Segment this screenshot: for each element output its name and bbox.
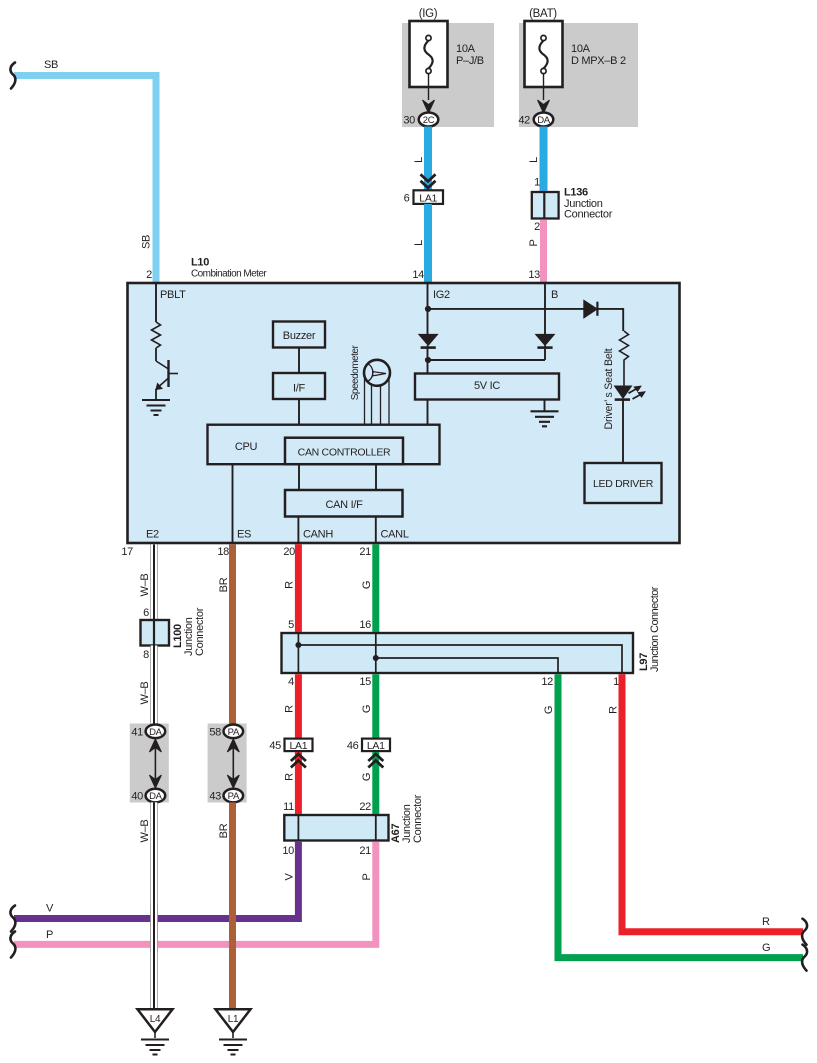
label BR xyxy=(218,823,230,838)
CAN CONTROLLER box xyxy=(285,438,403,465)
label G xyxy=(543,706,555,714)
svg-text:42: 42 xyxy=(518,115,530,127)
pin 2 xyxy=(146,269,152,281)
pin 16 xyxy=(359,619,371,631)
svg-text:R: R xyxy=(608,706,620,714)
arrow into 2C xyxy=(423,100,435,113)
svg-text:DA: DA xyxy=(149,727,163,738)
wire G CANL seg3 xyxy=(372,752,379,814)
wire G CANL seg2 xyxy=(372,674,379,738)
svg-text:P: P xyxy=(528,239,540,246)
svg-text:Connector: Connector xyxy=(564,209,613,221)
svg-text:LA1: LA1 xyxy=(290,740,308,752)
svg-text:17: 17 xyxy=(121,546,133,558)
arrow into DA xyxy=(538,100,550,113)
svg-text:46: 46 xyxy=(347,740,359,752)
label V xyxy=(284,873,296,881)
shield chevrons into LA1 xyxy=(421,174,436,188)
junction connector L136 xyxy=(532,187,613,221)
svg-text:2: 2 xyxy=(534,221,540,233)
wire R CANH seg3 xyxy=(295,752,302,814)
pin 15 xyxy=(359,676,371,688)
label P xyxy=(528,239,540,246)
label L xyxy=(413,240,425,246)
wire LED to LED DRIVER xyxy=(622,400,624,463)
label L xyxy=(528,157,540,163)
svg-text:10A: 10A xyxy=(456,43,476,55)
svg-text:Combination Meter: Combination Meter xyxy=(191,269,267,280)
label R xyxy=(284,773,296,781)
svg-text:LA1: LA1 xyxy=(367,740,385,752)
label V left xyxy=(46,903,54,915)
wire B internal xyxy=(545,283,558,334)
label R xyxy=(608,706,620,714)
label P left xyxy=(46,929,53,941)
svg-text:SB: SB xyxy=(44,59,58,71)
transistor Q1 xyxy=(156,348,178,399)
fuse F1 IG 10A xyxy=(410,21,484,87)
svg-text:16: 16 xyxy=(359,619,371,631)
pin 4 xyxy=(288,676,294,688)
diode D2 down xyxy=(536,334,555,360)
wire G CANL seg1 xyxy=(372,544,379,632)
pin 21 xyxy=(359,845,371,857)
svg-text:V: V xyxy=(46,903,54,915)
label G right xyxy=(762,942,770,954)
svg-text:D MPX–B 2: D MPX–B 2 xyxy=(571,55,626,67)
svg-text:13: 13 xyxy=(528,269,540,281)
svg-text:R: R xyxy=(762,916,770,928)
I/F box xyxy=(273,373,325,399)
svg-text:R: R xyxy=(284,705,296,713)
fuse block BAT background xyxy=(519,23,638,127)
svg-text:R: R xyxy=(284,773,296,781)
pin 1 xyxy=(534,177,540,189)
pin 18 xyxy=(217,546,229,558)
connector pin 40 DA xyxy=(131,789,165,803)
svg-text:BR: BR xyxy=(218,823,230,838)
pin 17 xyxy=(121,546,133,558)
svg-text:PA: PA xyxy=(228,727,240,738)
svg-text:LA1: LA1 xyxy=(419,193,437,205)
svg-text:(IG): (IG) xyxy=(419,8,438,20)
connector 45 LA1 xyxy=(269,739,312,752)
pin 13 xyxy=(528,269,540,281)
label G xyxy=(361,705,373,713)
svg-text:2C: 2C xyxy=(423,115,435,126)
wire W-B seg2 xyxy=(150,646,158,726)
svg-text:Speedometer: Speedometer xyxy=(350,345,361,401)
label W-B xyxy=(139,682,151,705)
5V IC box xyxy=(415,374,559,400)
label W-B xyxy=(139,820,151,843)
wire P from L136 to pin 13 xyxy=(540,220,547,282)
svg-text:CANH: CANH xyxy=(303,529,333,541)
wire fuse IG lead xyxy=(428,73,430,100)
svg-text:V: V xyxy=(284,873,296,881)
wire CANC to CANIF left xyxy=(298,464,300,490)
wire W-B seg1 xyxy=(150,544,158,620)
svg-text:G: G xyxy=(361,581,373,589)
svg-text:1: 1 xyxy=(613,676,619,688)
pin 22 xyxy=(359,801,371,813)
wire BR overpass xyxy=(229,905,236,952)
svg-text:CAN CONTROLLER: CAN CONTROLLER xyxy=(298,447,391,459)
wire CANL internal xyxy=(375,517,377,544)
svg-text:P: P xyxy=(361,873,373,880)
svg-text:L: L xyxy=(413,240,425,246)
wire W-B seg3 xyxy=(150,802,158,1009)
label L100 vertical xyxy=(172,624,184,648)
label Driver's Seat Belt vertical xyxy=(603,348,615,429)
wire CANH internal xyxy=(297,517,299,544)
svg-text:CPU: CPU xyxy=(235,441,258,453)
svg-text:21: 21 xyxy=(359,546,371,558)
wire I/F to CPU xyxy=(298,399,300,425)
label BR xyxy=(218,577,230,592)
svg-text:Driver’ s Seat Belt: Driver’ s Seat Belt xyxy=(603,348,615,429)
svg-text:G: G xyxy=(762,942,770,954)
label CANH xyxy=(303,529,333,541)
label Junction Connector vertical xyxy=(649,586,661,672)
label Junction Connector vertical xyxy=(183,607,206,656)
squiggle P left edge xyxy=(10,932,15,958)
speedometer gauge xyxy=(364,360,390,425)
label R xyxy=(284,705,296,713)
svg-text:B: B xyxy=(551,289,558,301)
svg-text:L1: L1 xyxy=(228,1014,239,1025)
wire 5VIC to CPU xyxy=(427,400,429,426)
svg-text:40: 40 xyxy=(131,791,143,803)
svg-text:DA: DA xyxy=(537,115,551,126)
svg-text:L10: L10 xyxy=(191,257,209,269)
svg-text:Connector: Connector xyxy=(412,794,424,843)
wire W-B overpass xyxy=(150,905,158,952)
squiggle R right edge xyxy=(802,919,807,945)
shield chevrons 45 xyxy=(291,754,306,768)
wire R CANH seg1 xyxy=(295,544,302,632)
svg-text:E2: E2 xyxy=(146,529,159,541)
squiggle SB left edge xyxy=(10,63,15,89)
connector pin 41 DA xyxy=(131,725,165,739)
fuse block IG background xyxy=(402,23,494,127)
svg-text:IG2: IG2 xyxy=(433,289,450,301)
wire fuse BAT lead xyxy=(543,73,545,100)
fuse F2 BAT 10A xyxy=(525,21,626,87)
svg-text:L: L xyxy=(528,157,540,163)
label R xyxy=(284,581,296,589)
connector pin 43 PA xyxy=(209,789,243,803)
wire R right run xyxy=(622,674,803,932)
svg-text:43: 43 xyxy=(209,791,221,803)
svg-text:5: 5 xyxy=(288,619,294,631)
mating arrows PA xyxy=(227,739,239,788)
wire BR seg1 xyxy=(229,544,236,725)
svg-text:SB: SB xyxy=(141,235,153,249)
pin 10 xyxy=(282,845,294,857)
wire L from LA1 to pin 14 xyxy=(424,204,432,282)
svg-text:30: 30 xyxy=(403,115,415,127)
wire D2 to 5VIC node xyxy=(428,359,546,361)
svg-text:L: L xyxy=(413,157,425,163)
label A67 vertical xyxy=(390,824,402,843)
svg-text:2: 2 xyxy=(146,269,152,281)
svg-text:R: R xyxy=(284,581,296,589)
wire buzzer to I/F xyxy=(298,348,300,374)
CPU box xyxy=(208,425,440,465)
svg-text:20: 20 xyxy=(283,546,295,558)
label G xyxy=(361,581,373,589)
svg-text:10A: 10A xyxy=(571,43,591,55)
svg-text:21: 21 xyxy=(359,845,371,857)
squiggle V left edge xyxy=(10,906,15,932)
svg-text:41: 41 xyxy=(131,726,143,738)
svg-text:4: 4 xyxy=(288,676,294,688)
svg-text:Junction Connector: Junction Connector xyxy=(649,586,661,672)
svg-text:14: 14 xyxy=(412,269,424,281)
svg-text:PA: PA xyxy=(228,791,240,802)
junction connector L97 xyxy=(282,633,634,673)
label G xyxy=(361,773,373,781)
svg-text:58: 58 xyxy=(209,726,221,738)
svg-text:6: 6 xyxy=(143,607,149,619)
svg-text:P: P xyxy=(46,929,53,941)
label PBLT xyxy=(160,289,186,301)
ground L1 xyxy=(216,1009,251,1054)
label L xyxy=(413,157,425,163)
pin 20 xyxy=(283,546,295,558)
wire D3 to seat belt resistor xyxy=(597,309,623,331)
label P xyxy=(361,873,373,880)
label L10 Combination Meter xyxy=(191,257,267,280)
resistor R-pblt xyxy=(152,322,161,348)
svg-text:ES: ES xyxy=(237,529,251,541)
pin 5 xyxy=(288,619,294,631)
LED DRIVER box xyxy=(585,463,662,503)
resistor seat belt xyxy=(620,331,629,386)
label CANL xyxy=(381,529,409,541)
svg-text:W–B: W–B xyxy=(139,820,151,843)
label E2 xyxy=(146,529,159,541)
pin 11 xyxy=(283,801,294,813)
ground pblt xyxy=(142,400,170,415)
combination meter box L10 xyxy=(128,283,680,543)
label W-B xyxy=(139,574,151,597)
svg-text:10: 10 xyxy=(282,845,294,857)
svg-text:8: 8 xyxy=(143,649,149,661)
junction connector L100 xyxy=(141,620,170,646)
svg-text:12: 12 xyxy=(541,676,553,688)
svg-text:(BAT): (BAT) xyxy=(529,8,557,20)
svg-text:1: 1 xyxy=(534,177,540,189)
svg-text:W–B: W–B xyxy=(139,574,151,597)
buzzer box xyxy=(273,322,325,348)
svg-text:18: 18 xyxy=(217,546,229,558)
connector pass block PA xyxy=(208,724,247,803)
pin 2 xyxy=(534,221,540,233)
svg-text:BR: BR xyxy=(218,577,230,592)
diode D1 down xyxy=(419,334,438,373)
svg-text:I/F: I/F xyxy=(293,383,306,395)
wire IG2 to diode D3 xyxy=(428,308,585,310)
wire ES internal xyxy=(232,464,234,543)
mating arrows DA xyxy=(149,739,161,788)
ground L4 xyxy=(138,1009,173,1054)
label (IG) xyxy=(419,8,438,20)
connector pin 42 DA xyxy=(518,113,553,127)
wire P pink run xyxy=(14,842,376,945)
pin 14 xyxy=(412,269,424,281)
CAN I/F box xyxy=(285,490,403,517)
wire G right run xyxy=(558,674,803,957)
pin 6 xyxy=(143,607,149,619)
svg-text:15: 15 xyxy=(359,676,371,688)
wire PBLT internal xyxy=(155,283,157,322)
svg-text:G: G xyxy=(361,773,373,781)
svg-text:CAN I/F: CAN I/F xyxy=(325,499,363,511)
label R right xyxy=(762,916,770,928)
pin 21 xyxy=(359,546,371,558)
svg-text:22: 22 xyxy=(359,801,371,813)
label Junction Connector vertical xyxy=(401,794,424,843)
wire SB from left edge xyxy=(14,76,156,282)
diode D3 right xyxy=(584,300,598,318)
connector pin 58 PA xyxy=(209,725,243,739)
svg-text:CANL: CANL xyxy=(381,529,409,541)
pin 12 xyxy=(541,676,553,688)
pin 8 xyxy=(143,649,149,661)
svg-text:L136: L136 xyxy=(564,187,588,199)
wire R CANH seg2 xyxy=(295,674,302,738)
svg-text:G: G xyxy=(361,705,373,713)
squiggle G right edge xyxy=(802,945,807,971)
shield chevrons 46 xyxy=(368,754,383,768)
svg-text:11: 11 xyxy=(283,801,294,813)
label L97 vertical xyxy=(638,653,650,671)
connector pass block DA xyxy=(130,724,169,803)
label ES xyxy=(237,529,251,541)
svg-text:Buzzer: Buzzer xyxy=(283,330,316,342)
svg-text:G: G xyxy=(543,706,555,714)
wire V purple run xyxy=(14,842,298,919)
svg-text:W–B: W–B xyxy=(139,682,151,705)
wire BR seg2 xyxy=(229,802,236,1009)
svg-text:PBLT: PBLT xyxy=(160,289,186,301)
connector 6 LA1 xyxy=(404,190,443,204)
wire IG2 internal xyxy=(425,283,450,334)
svg-text:45: 45 xyxy=(269,740,281,752)
svg-text:6: 6 xyxy=(404,193,410,205)
label (BAT) xyxy=(529,8,557,20)
wire 5VIC ground lead xyxy=(544,400,546,412)
svg-text:L4: L4 xyxy=(150,1014,161,1025)
label SB xyxy=(44,59,58,71)
pin 1 xyxy=(613,676,619,688)
svg-text:P–J/B: P–J/B xyxy=(456,55,484,67)
connector 46 LA1 xyxy=(347,739,390,752)
label Speedometer vertical xyxy=(350,345,361,401)
LED seat belt xyxy=(615,386,646,400)
wire L from IG fuse to LA1 xyxy=(424,127,432,191)
svg-text:DA: DA xyxy=(149,791,163,802)
wire L from BAT fuse to L136 xyxy=(540,127,548,191)
ground 5VIC xyxy=(531,411,559,426)
svg-text:Connector: Connector xyxy=(194,607,206,656)
label SB vertical xyxy=(141,235,153,249)
junction connector A67 xyxy=(284,815,388,841)
connector pin 30 2C xyxy=(403,113,438,127)
svg-text:5V IC: 5V IC xyxy=(474,380,500,392)
wire CANC to CANIF right xyxy=(375,464,377,490)
svg-text:LED DRIVER: LED DRIVER xyxy=(593,478,654,490)
